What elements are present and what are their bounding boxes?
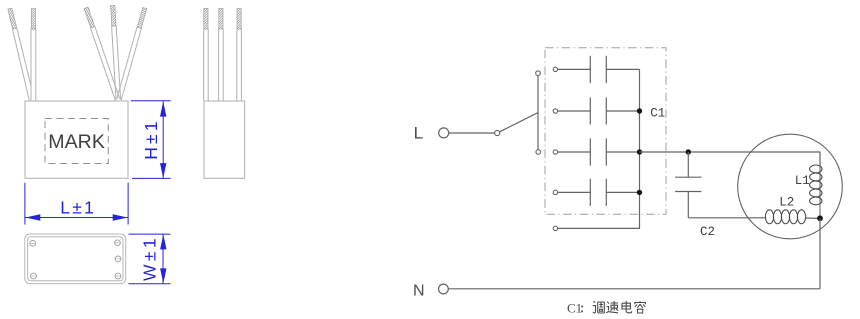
svg-text:C1: C1 xyxy=(650,107,665,121)
svg-text:MARK: MARK xyxy=(48,131,105,153)
svg-text:H±1: H±1 xyxy=(141,118,161,160)
stripped tip front-right fan right xyxy=(137,7,147,28)
stripped tip front-left vertical xyxy=(31,9,35,30)
junction motor node xyxy=(817,215,823,221)
capacitor bank row 3 xyxy=(558,138,640,165)
lead wire front-left vertical xyxy=(31,29,36,101)
bank contact 1 xyxy=(553,67,557,71)
svg-text:L: L xyxy=(414,124,423,143)
junction C2 tap xyxy=(686,149,691,154)
lead wire side 1 xyxy=(204,29,209,101)
wire C2 to L2 xyxy=(688,217,766,219)
svg-text:L2: L2 xyxy=(779,195,794,209)
junction bus row4 xyxy=(637,190,642,195)
main wire to motor xyxy=(640,152,821,166)
lead wire front-right fan middle xyxy=(112,26,121,100)
stripped tip front-left angled xyxy=(8,8,17,29)
caption glyph su xyxy=(606,301,618,313)
inductor L2 (aux winding) xyxy=(765,210,817,224)
switch arm xyxy=(500,113,538,132)
lead wire front-left angled xyxy=(13,28,31,100)
caption C1: speed-control capacitor xyxy=(567,300,583,315)
terminal N circle xyxy=(439,284,449,294)
selector bar xyxy=(537,75,539,150)
inductor L1 (main winding) xyxy=(810,152,822,218)
lead wire side 2 xyxy=(219,29,224,101)
svg-text:W±1: W±1 xyxy=(140,235,160,281)
dimension W±1 xyxy=(129,234,171,284)
lead wire side 3 xyxy=(237,29,242,101)
capacitor bank row 2 xyxy=(558,97,640,124)
dimension H±1 xyxy=(131,101,171,179)
capacitor body side view xyxy=(204,101,245,178)
junction bus row3 xyxy=(637,149,642,154)
bank contact 4 xyxy=(553,190,557,194)
svg-text:C1: C1 xyxy=(567,300,582,315)
selector bar top contact xyxy=(536,71,541,76)
bank contact 5 (direct) xyxy=(553,226,557,230)
junction bus row2 xyxy=(637,108,642,113)
terminal L circle xyxy=(439,128,449,138)
capacitor bank row 1 xyxy=(558,56,640,83)
capacitor bank row 4 xyxy=(558,179,640,206)
capacitor bottom view xyxy=(25,234,126,284)
selector bar bottom contact xyxy=(536,150,541,155)
svg-text:L1: L1 xyxy=(795,174,810,188)
wire motor down xyxy=(819,218,821,288)
svg-text:C2: C2 xyxy=(700,225,715,239)
bank contact 3 xyxy=(553,150,557,154)
stripped tip front-right fan middle xyxy=(111,5,116,26)
C1 capacitor bank enclosure (dash-dot) xyxy=(545,48,666,215)
bottom view wire holes xyxy=(30,240,121,279)
wire N xyxy=(448,288,820,290)
stripped tip front-right fan left xyxy=(84,7,95,28)
svg-text:N: N xyxy=(413,282,425,299)
wire L to switch pivot xyxy=(449,132,495,134)
capacitor C2 xyxy=(675,152,702,218)
lead wire front-right fan right xyxy=(117,27,142,100)
svg-text:L±1: L±1 xyxy=(60,198,96,218)
lead wire front-right fan left xyxy=(91,27,120,101)
stripped tip side 2 xyxy=(219,9,223,30)
capacitor body front view xyxy=(25,101,128,178)
bank common bus wire xyxy=(558,69,640,228)
motor circle xyxy=(738,134,843,239)
caption glyph diao xyxy=(593,301,605,313)
dimension L±1 xyxy=(25,183,128,225)
bank contact 2 xyxy=(553,109,557,113)
stripped tip side 1 xyxy=(204,9,208,30)
switch pivot contact xyxy=(495,130,500,135)
MARK label zone (dashed) xyxy=(45,119,108,164)
caption glyph rong xyxy=(635,301,646,313)
caption glyph dian xyxy=(622,301,632,313)
stripped tip side 3 xyxy=(237,9,241,30)
